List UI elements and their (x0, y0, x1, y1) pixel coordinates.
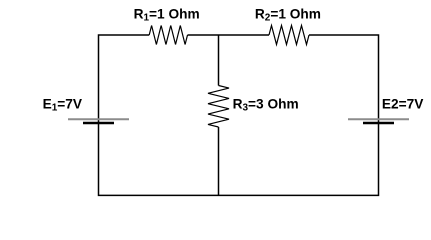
wire top-middle segment (188, 34, 270, 36)
resistor R1 (149, 26, 187, 45)
battery E2 positive plate (348, 118, 409, 120)
resistor R2 (269, 26, 309, 45)
wire middle vertical lower (218, 127, 220, 195)
wire outer loop (99, 35, 379, 195)
svg-text:R3=3 Ohm: R3=3 Ohm (233, 97, 299, 114)
resistor R3 (208, 86, 229, 128)
battery E2 negative plate (363, 122, 394, 124)
svg-text:R2=1 Ohm: R2=1 Ohm (255, 6, 321, 23)
svg-text:R1=1 Ohm: R1=1 Ohm (134, 6, 200, 23)
battery E1 negative plate (83, 122, 114, 124)
wire middle vertical upper (218, 35, 220, 86)
svg-text:E2=7V: E2=7V (382, 97, 424, 112)
svg-text:E1=7V: E1=7V (43, 97, 83, 114)
battery E1 positive plate (68, 118, 129, 120)
